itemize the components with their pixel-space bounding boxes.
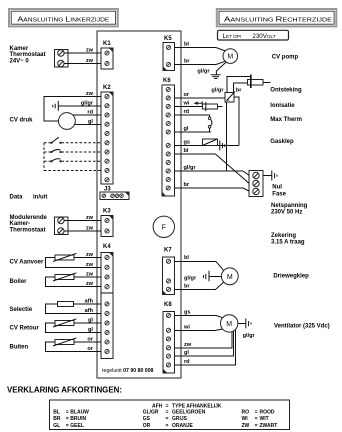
svg-text:=: = bbox=[255, 416, 258, 422]
svg-text:BR: BR bbox=[53, 416, 61, 422]
svg-text:OR: OR bbox=[143, 423, 151, 429]
svg-text:GS: GS bbox=[143, 416, 151, 422]
svg-text:zw: zw bbox=[86, 262, 94, 268]
svg-text:GL: GL bbox=[53, 423, 60, 429]
svg-text:gl/gr: gl/gr bbox=[243, 333, 256, 339]
svg-text:CV Retour: CV Retour bbox=[10, 326, 40, 332]
svg-text:zw: zw bbox=[86, 252, 94, 258]
svg-text:in/uit: in/uit bbox=[33, 195, 47, 201]
svg-text:zw: zw bbox=[86, 48, 94, 54]
svg-text:gl/gr: gl/gr bbox=[211, 87, 224, 93]
svg-text:gl/gr: gl/gr bbox=[184, 275, 197, 281]
svg-text:ZWART: ZWART bbox=[260, 423, 278, 429]
svg-text:Kamer: Kamer bbox=[10, 46, 29, 52]
svg-text:Thermostaat: Thermostaat bbox=[10, 227, 46, 233]
svg-text:K5: K5 bbox=[164, 36, 172, 42]
svg-text:ORANJE: ORANJE bbox=[172, 423, 194, 429]
svg-text:gl/gr: gl/gr bbox=[197, 69, 210, 75]
svg-text:WI: WI bbox=[242, 416, 249, 422]
svg-text:Ventilator (325 Vdc): Ventilator (325 Vdc) bbox=[274, 324, 330, 330]
svg-text:K4: K4 bbox=[103, 244, 111, 250]
svg-text:K6: K6 bbox=[163, 78, 171, 84]
svg-text:WIT: WIT bbox=[260, 416, 269, 422]
svg-text:br: br bbox=[184, 182, 190, 188]
svg-text:24V~ 0: 24V~ 0 bbox=[10, 58, 30, 64]
svg-text:=: = bbox=[166, 416, 169, 422]
svg-text:zw: zw bbox=[184, 342, 192, 348]
svg-text:afh: afh bbox=[85, 308, 94, 314]
svg-text:=: = bbox=[66, 416, 69, 422]
svg-text:gs: gs bbox=[184, 309, 191, 315]
svg-text:230VOLT: 230VOLT bbox=[252, 33, 275, 40]
svg-text:3.15 A traag: 3.15 A traag bbox=[271, 240, 305, 246]
svg-text:CV Aanvoer: CV Aanvoer bbox=[10, 260, 44, 266]
svg-text:gl: gl bbox=[88, 327, 93, 333]
svg-text:Modulerende: Modulerende bbox=[10, 215, 48, 221]
svg-text:br: br bbox=[236, 87, 242, 93]
svg-text:or: or bbox=[184, 92, 190, 98]
svg-text:br: br bbox=[184, 59, 190, 65]
svg-text:230V 50 Hz: 230V 50 Hz bbox=[271, 209, 302, 215]
svg-text:M: M bbox=[227, 274, 233, 281]
svg-text:rd: rd bbox=[87, 110, 93, 116]
svg-text:Zekering: Zekering bbox=[271, 233, 296, 239]
svg-text:gl/gr: gl/gr bbox=[81, 100, 94, 106]
svg-text:bl: bl bbox=[184, 42, 189, 48]
svg-text:=: = bbox=[66, 409, 69, 415]
svg-text:K2: K2 bbox=[103, 85, 111, 91]
svg-text:wi: wi bbox=[183, 324, 190, 330]
svg-text:bl: bl bbox=[184, 255, 189, 261]
svg-text:M: M bbox=[226, 321, 232, 328]
svg-text:BL: BL bbox=[53, 409, 60, 415]
svg-text:=: = bbox=[66, 423, 69, 429]
svg-text:CV druk: CV druk bbox=[10, 118, 34, 124]
svg-text:wi: wi bbox=[183, 101, 190, 107]
svg-text:BRUIN: BRUIN bbox=[70, 416, 86, 422]
svg-text:GRIJS: GRIJS bbox=[172, 416, 188, 422]
svg-text:=: = bbox=[255, 409, 258, 415]
svg-text:RO: RO bbox=[242, 409, 250, 415]
svg-text:zw: zw bbox=[86, 281, 94, 287]
svg-text:Kamer-: Kamer- bbox=[10, 221, 31, 227]
svg-text:GEEL/GROEN: GEEL/GROEN bbox=[172, 409, 206, 415]
svg-text:gl: gl bbox=[88, 318, 93, 324]
svg-text:=: = bbox=[166, 409, 169, 415]
svg-text:zw: zw bbox=[86, 58, 94, 64]
svg-text:Fase: Fase bbox=[272, 192, 286, 198]
svg-text:BLAUW: BLAUW bbox=[70, 409, 89, 415]
svg-text:afh: afh bbox=[85, 299, 94, 305]
svg-text:Boiler: Boiler bbox=[10, 279, 28, 285]
svg-text:Gasklep: Gasklep bbox=[270, 139, 294, 145]
svg-text:GEEL: GEEL bbox=[70, 423, 84, 429]
svg-text:rd: rd bbox=[184, 109, 190, 115]
svg-text:or: or bbox=[87, 337, 93, 343]
svg-text:gl: gl bbox=[184, 126, 189, 132]
svg-text:F: F bbox=[162, 223, 167, 232]
svg-text:bl: bl bbox=[184, 148, 189, 154]
svg-text:br: br bbox=[184, 283, 190, 289]
svg-text:K8: K8 bbox=[164, 302, 172, 308]
svg-text:K3: K3 bbox=[103, 209, 111, 215]
svg-text:gl: gl bbox=[88, 119, 93, 125]
svg-text:M: M bbox=[227, 54, 233, 61]
svg-text:GL/GR: GL/GR bbox=[143, 409, 159, 415]
svg-text:or: or bbox=[87, 346, 93, 352]
svg-text:Ontsteking: Ontsteking bbox=[270, 88, 302, 94]
svg-text:zw: zw bbox=[86, 226, 94, 232]
svg-text:Selectie: Selectie bbox=[10, 307, 33, 313]
svg-text:Max Therm: Max Therm bbox=[270, 117, 302, 123]
svg-text:Buiten: Buiten bbox=[10, 345, 29, 351]
svg-text:ZW: ZW bbox=[242, 423, 250, 429]
svg-text:zw: zw bbox=[86, 215, 94, 221]
svg-text:=: = bbox=[255, 423, 258, 429]
svg-text:Ionisatie: Ionisatie bbox=[270, 103, 295, 109]
svg-text:zw: zw bbox=[86, 272, 94, 278]
svg-text:gl/gr: gl/gr bbox=[184, 165, 197, 171]
svg-text:Driewegklep: Driewegklep bbox=[273, 274, 309, 280]
svg-text:ROOD: ROOD bbox=[260, 409, 275, 415]
svg-text:K1: K1 bbox=[103, 41, 111, 47]
svg-text:gs: gs bbox=[184, 140, 191, 146]
svg-text:Nul: Nul bbox=[272, 185, 282, 191]
svg-text:regelunit 07 90 80 008: regelunit 07 90 80 008 bbox=[102, 368, 154, 374]
svg-text:rd: rd bbox=[184, 359, 190, 365]
svg-text:CV pomp: CV pomp bbox=[272, 55, 299, 61]
svg-text:K7: K7 bbox=[164, 248, 172, 254]
svg-text:zw: zw bbox=[86, 91, 94, 97]
svg-text:Netspanning: Netspanning bbox=[271, 203, 308, 209]
svg-text:gl: gl bbox=[184, 350, 189, 356]
svg-text:=: = bbox=[166, 423, 169, 429]
svg-text:LET OP!: LET OP! bbox=[223, 33, 242, 40]
svg-text:Data: Data bbox=[10, 195, 24, 201]
svg-text:Thermostaat: Thermostaat bbox=[10, 52, 46, 58]
svg-text:VERKLARING AFKORTINGEN:: VERKLARING AFKORTINGEN: bbox=[7, 385, 122, 394]
